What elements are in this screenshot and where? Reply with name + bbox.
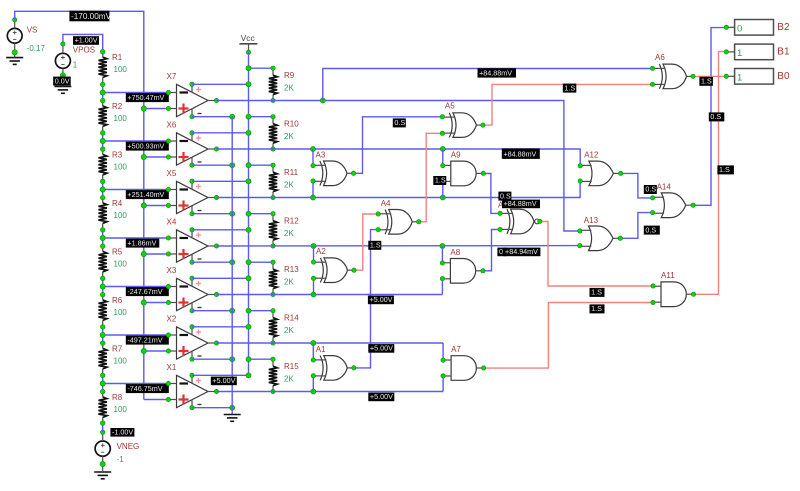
voltage source VS [7, 28, 22, 43]
svg-text:X3: X3 [167, 266, 177, 275]
svg-text:A8: A8 [450, 248, 460, 257]
node A3 pins [311, 163, 315, 167]
wire X1 positive supply pin to Vcc rail [192, 374, 249, 376]
AND gate A11 [653, 282, 694, 307]
wire X6 positive supply pin to Vcc rail [192, 132, 249, 134]
node A8 pins [440, 261, 444, 265]
node R14 terminals [246, 308, 251, 313]
svg-text:+84.88mV: +84.88mV [504, 199, 537, 208]
wire A2 output to A4 input 1 [354, 214, 378, 270]
svg-text:2K: 2K [284, 277, 294, 286]
svg-text:R7: R7 [112, 345, 123, 354]
node A4 pins [376, 212, 380, 216]
svg-text:R6: R6 [112, 296, 123, 305]
node VPOS terminals [61, 42, 65, 46]
wire A8 output to A10 input 2 [483, 230, 500, 271]
svg-text:+5.00V: +5.00V [370, 343, 393, 352]
svg-text:A3: A3 [316, 150, 326, 159]
wire X7 line riser to A6 input 1 [323, 69, 653, 101]
svg-text:1.S: 1.S [370, 241, 381, 250]
wire signal to X7 plus input [144, 108, 169, 110]
XOR gate A4 [378, 210, 419, 235]
AND gate A7 [443, 356, 484, 381]
svg-text:A4: A4 [381, 199, 391, 208]
wire Vcc rail to R11 [249, 164, 274, 166]
svg-text:+84.94mV: +84.94mV [505, 247, 538, 256]
svg-text:-0.17: -0.17 [27, 44, 46, 53]
svg-text:0.S: 0.S [394, 118, 405, 127]
svg-text:1: 1 [737, 48, 742, 59]
svg-text:2K: 2K [284, 229, 294, 238]
wire A3 output to A5 input 1 [354, 117, 443, 174]
svg-text:A6: A6 [655, 53, 665, 62]
node X5 pins [166, 179, 218, 216]
wire VPOS to R1 [63, 34, 103, 51]
wire riser X6 line to A9 input 1 [442, 149, 444, 166]
wire X1 output line [217, 391, 444, 393]
node X2 line junctions [311, 341, 316, 346]
wire A13 output to A14 input 2 [620, 213, 652, 239]
node X7 supply rail junctions [246, 82, 251, 87]
node R9 terminals [246, 66, 251, 71]
svg-text:100: 100 [114, 308, 128, 317]
svg-text:1.S: 1.S [701, 77, 712, 86]
svg-text:2K: 2K [284, 374, 294, 383]
resistor R9 [269, 68, 277, 100]
svg-text:1: 1 [737, 72, 742, 83]
svg-text:B1: B1 [777, 47, 790, 58]
wire riser X3 line to A8 input 2 [441, 279, 443, 295]
svg-text:X7: X7 [167, 72, 177, 81]
node X4 pins [166, 228, 218, 265]
resistor R14 [269, 311, 277, 343]
svg-text:2K: 2K [284, 132, 294, 141]
op-amp comparator X7 [168, 84, 216, 116]
svg-text:+251.40mV: +251.40mV [127, 190, 164, 199]
wire Vcc rail to R15 [249, 358, 274, 360]
label +5.00V Vcc net [211, 376, 237, 385]
resistor R5 [99, 246, 107, 278]
OR gate A12 [580, 161, 621, 186]
resistor R11 [269, 165, 277, 197]
svg-text:R4: R4 [112, 199, 123, 208]
svg-text:R10: R10 [284, 120, 299, 129]
resistor R8 [99, 392, 107, 423]
node X6 supply rail junctions [246, 130, 251, 135]
label +5.00V on X3 output line [368, 295, 394, 304]
node X5 supply rail junctions [246, 179, 251, 184]
wire X7 positive supply pin to Vcc rail [192, 83, 249, 85]
XOR gate A5 [442, 113, 483, 138]
node VS top terminal [13, 18, 17, 22]
svg-text:+1.00V: +1.00V [75, 36, 98, 45]
svg-text:-247.67mV: -247.67mV [127, 287, 162, 296]
label -170.00mV [69, 11, 111, 22]
wire X6 output line [217, 149, 581, 166]
svg-text:+84.88mV: +84.88mV [479, 68, 512, 77]
wire riser X4 line to A8 input 1 [441, 246, 443, 263]
svg-text:R11: R11 [284, 168, 299, 177]
op-amp comparator X5 [168, 181, 216, 213]
wire A1 output to A4 input 2 [354, 230, 378, 368]
label 1.S on A6 output [699, 77, 713, 86]
svg-text:VNEG: VNEG [117, 442, 140, 451]
svg-text:+500.93mV: +500.93mV [127, 141, 164, 150]
XNOR gate A10 [500, 209, 540, 234]
svg-text:1.S: 1.S [591, 304, 602, 313]
label 1.S on A11 output riser [717, 165, 734, 174]
indicator box B1 [726, 44, 773, 60]
svg-text:R15: R15 [284, 362, 299, 371]
node X4 line junctions [311, 244, 316, 249]
ground below VPOS [54, 87, 71, 94]
label +84.88mV on A10 input net [502, 199, 540, 208]
op-amp comparator X2 [168, 327, 216, 359]
wire riser X4 line to A2 input 1 [313, 246, 315, 262]
wire Vcc rail to R12 [249, 213, 274, 215]
OR gate A14 [653, 193, 694, 218]
node A7 pins [441, 358, 445, 362]
label 0.S near A14 input 2 [644, 225, 660, 234]
resistor R6 [99, 295, 107, 327]
wire X6 negative supply pin to ground line [192, 164, 232, 166]
svg-text:1.S: 1.S [564, 83, 575, 92]
node ladder junctions [100, 49, 105, 425]
wire X5 negative supply pin to ground line [192, 213, 232, 215]
resistor R7 [99, 343, 107, 375]
svg-text:2K: 2K [284, 326, 294, 335]
wire X2 negative supply pin to ground line [192, 358, 232, 360]
ground for comparators [224, 415, 241, 422]
node X6 line junctions [311, 147, 316, 152]
label -247.67mV [126, 287, 169, 296]
svg-text:R3: R3 [112, 151, 123, 160]
wire X2 positive supply pin to Vcc rail [192, 326, 249, 328]
wire ladder tap to X4 minus input [103, 237, 169, 239]
svg-text:2K: 2K [284, 180, 294, 189]
node signal rail junctions [141, 106, 146, 354]
label -497.21mV [126, 335, 169, 344]
svg-text:A2: A2 [316, 247, 326, 256]
svg-text:1.S: 1.S [435, 176, 446, 185]
node B0 input [724, 74, 728, 78]
wire A6 output to B0 [693, 75, 726, 77]
svg-text:R14: R14 [284, 314, 299, 323]
resistor R2 [99, 101, 107, 133]
wire Vcc rail [248, 52, 250, 375]
wire X2 output line [217, 342, 444, 344]
wire signal to X2 plus input [144, 350, 169, 352]
voltage source VNEG [95, 441, 110, 456]
XOR gate A1 [313, 356, 354, 381]
svg-text:2K: 2K [284, 83, 294, 92]
node A6 pins [650, 66, 654, 70]
label 1.S on A11 input 1 [590, 288, 605, 297]
XOR gate A3 [313, 161, 354, 186]
node A5 pins [440, 115, 444, 119]
wire X7 output line to A13 input riser [217, 101, 580, 232]
op-amp comparator X6 [168, 133, 216, 165]
label +84.88mV on A6 input 1 wire [478, 68, 517, 77]
indicator box B2 [726, 20, 773, 36]
svg-text:-170.00mV: -170.00mV [71, 12, 112, 21]
svg-text:0.S: 0.S [710, 112, 721, 121]
svg-text:A12: A12 [584, 151, 599, 160]
node R12 terminals [246, 211, 251, 216]
wire ladder tap to X1 minus input [103, 383, 169, 385]
node A10 pins [498, 211, 502, 215]
node X2 supply rail junctions [246, 324, 251, 329]
wire A7 output to A11 input 2 [484, 303, 653, 369]
svg-text:+1.86mV: +1.86mV [127, 238, 156, 247]
svg-text:+750.47mV: +750.47mV [127, 93, 164, 102]
wire A14 output to B2 [693, 28, 726, 206]
svg-text:A5: A5 [445, 102, 455, 111]
node A1 pins [311, 358, 315, 362]
svg-text:R1: R1 [112, 53, 123, 62]
svg-text:X5: X5 [167, 169, 177, 178]
svg-text:-1: -1 [117, 455, 125, 464]
wire comparator ground line [231, 117, 233, 414]
label -746.75mV [126, 384, 169, 393]
wire riser X2 line to A7 input 1 [442, 343, 444, 360]
svg-text:A11: A11 [661, 271, 675, 280]
svg-text:A9: A9 [451, 150, 461, 159]
wire X3 positive supply pin to Vcc rail [192, 277, 249, 279]
svg-text:Vcc: Vcc [241, 33, 256, 43]
node X7 line junctions [320, 98, 325, 103]
svg-text:R13: R13 [284, 265, 299, 274]
label +1.00V [73, 36, 99, 45]
svg-text:1.S: 1.S [719, 165, 730, 174]
svg-text:100: 100 [114, 65, 128, 74]
resistor R15 [269, 359, 277, 391]
wire ladder tap to X3 minus input [103, 286, 169, 288]
resistor R10 [269, 117, 277, 149]
svg-text:X1: X1 [167, 363, 177, 372]
label +251.40mV [126, 190, 169, 199]
label 1.S on A11 input 2 [590, 304, 605, 313]
wire riser X2 line to A1 input 1 [312, 343, 314, 360]
wire A9 output to A10 input 1 [483, 174, 500, 214]
wire riser X5 line to A3 input 2 [312, 181, 314, 198]
label 1.S on A5 to A6 wire [563, 83, 577, 92]
svg-text:100: 100 [114, 259, 128, 268]
node A11 pins [651, 284, 655, 288]
svg-text:100: 100 [114, 162, 128, 171]
label +5.00V on X1 output line [368, 392, 394, 401]
wire X5 output line [217, 181, 581, 198]
wire ladder tap to X6 minus input [103, 140, 169, 142]
wire Vcc rail to R9 [249, 67, 274, 69]
wire signal to X3 plus input [144, 302, 169, 304]
resistor R4 [99, 198, 107, 230]
svg-text:B0: B0 [777, 71, 790, 82]
svg-text:0: 0 [737, 23, 742, 34]
svg-text:A13: A13 [584, 216, 599, 225]
XOR gate A6 [653, 64, 694, 89]
node X1 pins [166, 373, 218, 410]
label 0.S near A14 input 1 [644, 185, 657, 194]
svg-text:R8: R8 [112, 393, 123, 402]
node R15 terminals [246, 357, 251, 362]
wire riser X5 line to A9 input 2 [442, 181, 444, 197]
label 0.S plus +84.94mV on A8 output net [497, 247, 506, 256]
wire Vcc rail to R13 [249, 261, 274, 263]
resistor R13 [269, 262, 277, 294]
op-amp comparator X4 [168, 230, 216, 262]
node A2 pins [311, 260, 315, 264]
AND gate A8 [442, 259, 483, 284]
svg-text:100: 100 [114, 405, 128, 414]
svg-text:VS: VS [27, 26, 38, 35]
node X4 supply rail junctions [246, 227, 251, 232]
svg-text:R2: R2 [112, 102, 123, 111]
label +500.93mV [126, 141, 169, 150]
node X3 pins [166, 276, 218, 313]
svg-text:-1.00V: -1.00V [112, 427, 133, 436]
svg-text:X4: X4 [167, 218, 177, 227]
wire riser X1 line to A7 input 2 [442, 376, 444, 392]
label +750.47mV [126, 93, 169, 102]
svg-text:+5.00V: +5.00V [212, 376, 235, 385]
wire A10 output to A11 input 1 [540, 222, 653, 287]
wire X7 negative supply pin to ground line [192, 116, 232, 118]
node X7 pins [166, 82, 218, 119]
label +1.86mV [126, 238, 160, 247]
indicator box B0 [726, 69, 773, 85]
label 0.S on A10 input 1 net [498, 191, 511, 200]
svg-text:R12: R12 [284, 217, 299, 226]
node A14 pins [650, 196, 654, 200]
node X2 pins [166, 325, 218, 362]
node R13 terminals [246, 260, 251, 265]
ground below VNEG [94, 472, 111, 479]
wire riser X6 line to A3 input 1 [312, 149, 314, 166]
wire ladder tap to X5 minus input [103, 189, 169, 191]
svg-text:A14: A14 [657, 183, 672, 192]
wire X1 negative supply pin to ground line [192, 407, 232, 409]
svg-text:A1: A1 [316, 345, 326, 354]
node VNEG terminals [101, 430, 105, 434]
node B1 input [724, 50, 728, 54]
svg-text:1: 1 [73, 61, 78, 70]
wire ladder tap to X2 minus input [103, 334, 169, 336]
resistor R3 [99, 149, 107, 181]
svg-text:A7: A7 [451, 345, 461, 354]
AND gate A9 [443, 161, 484, 186]
voltage source VPOS [55, 53, 70, 68]
node X3 supply rail junctions [246, 276, 251, 281]
svg-text:X6: X6 [167, 121, 177, 130]
OR gate A13 [580, 226, 621, 251]
svg-text:B2: B2 [777, 22, 790, 33]
wire riser X1 line to A1 input 2 [312, 376, 314, 392]
op-amp comparator X1 [168, 375, 216, 407]
svg-text:-746.75mV: -746.75mV [127, 384, 162, 393]
node X6 pins [166, 131, 218, 168]
node Vcc stub [246, 50, 250, 54]
svg-text:100: 100 [114, 211, 128, 220]
XOR gate A2 [314, 258, 355, 283]
wire signal to X1 plus input [144, 399, 169, 401]
wire ladder column [102, 52, 104, 433]
svg-text:X2: X2 [167, 315, 177, 324]
label 0.S on A14 output riser [709, 112, 725, 121]
resistor R1 [99, 52, 107, 85]
resistor R12 [269, 214, 277, 246]
node R11 terminals [246, 163, 251, 168]
wire signal to X5 plus input [144, 205, 169, 207]
svg-text:+84.88mV: +84.88mV [503, 150, 536, 159]
wire X4 output line to A13 input 2 [217, 245, 580, 247]
label -1.00V [110, 427, 134, 436]
wire Vcc rail to R14 [249, 310, 274, 312]
op-amp comparator X3 [168, 278, 216, 310]
node X3 line junctions [311, 292, 316, 297]
node X5 line junctions [311, 195, 316, 200]
svg-text:+5.00V: +5.00V [370, 392, 393, 401]
svg-text:1.S: 1.S [591, 288, 602, 297]
label 1.S on A9 input 2 [433, 176, 446, 185]
label 0.0V [53, 76, 70, 85]
wire X3 output line [217, 294, 443, 296]
svg-text:+5.00V: +5.00V [370, 295, 393, 304]
wire X4 positive supply pin to Vcc rail [192, 229, 249, 231]
wire A5 output to A6 input 2 [483, 84, 653, 125]
node B2 input [724, 25, 728, 29]
svg-text:R5: R5 [112, 248, 123, 257]
svg-text:R9: R9 [284, 71, 295, 80]
wire X3 negative supply pin to ground line [192, 310, 232, 312]
wire A12 output to A14 input 1 [621, 173, 653, 198]
wire A4 output to A5 input 2 [419, 133, 443, 222]
wire X5 positive supply pin to Vcc rail [192, 180, 249, 182]
svg-text:-497.21mV: -497.21mV [127, 335, 162, 344]
wire signal to X4 plus input [144, 253, 169, 255]
label +84.88mV on X6 line [502, 148, 540, 159]
node A12 pins [578, 164, 582, 168]
svg-text:0.S: 0.S [645, 225, 656, 234]
wire signal to X6 plus input [144, 156, 169, 158]
wire X4 negative supply pin to ground line [192, 261, 232, 263]
ground below VS [6, 58, 23, 65]
node X1 line junctions [311, 389, 316, 394]
node R10 terminals [246, 114, 251, 119]
wire riser X3 line to A2 input 2 [313, 278, 315, 294]
label 0.S on A3 output wire [393, 118, 406, 127]
wire Vcc rail to R10 [249, 116, 274, 118]
label 1.S on A1 to A4 riser [368, 241, 381, 250]
node A13 pins [578, 229, 582, 233]
wire A11 output to B1 [694, 52, 727, 295]
wire VS to signal rail [15, 11, 144, 399]
svg-text:100: 100 [114, 356, 128, 365]
svg-text:0.S: 0.S [645, 185, 656, 194]
wire ladder tap to X7 minus input [103, 92, 169, 94]
label +5.00V on X2 output line [368, 343, 394, 352]
svg-text:100: 100 [114, 114, 128, 123]
svg-text:0.0V: 0.0V [55, 76, 70, 85]
node A9 pins [441, 163, 445, 167]
node X1 supply rail junctions [246, 373, 251, 378]
svg-text:VPOS: VPOS [73, 46, 95, 55]
